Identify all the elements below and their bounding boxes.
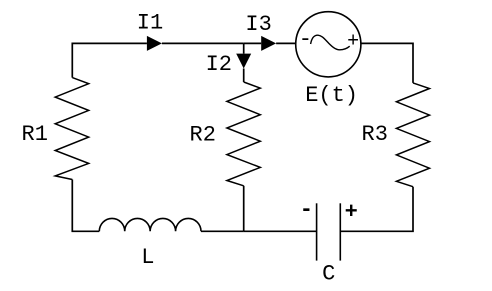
capacitor right plate [339,203,341,260]
wire: junction down to I2 arrow [243,43,245,53]
wire: I2 arrow to R2 top [243,69,245,83]
svg-text:+: + [345,200,358,225]
svg-text:L: L [141,245,154,270]
wire: junction to I3 arrow [244,42,262,44]
wire: inductor right end to R2 bottom junction [201,230,244,232]
capacitor left plate [316,203,318,260]
wire: capacitor right plate to R3 bottom [340,187,413,232]
source body circle [296,12,361,77]
svg-text:R2: R2 [190,123,216,148]
svg-text:I2: I2 [206,52,232,77]
current arrow I2 [236,54,251,69]
wire: I3 arrow to source negative terminal [276,42,296,44]
svg-text:R3: R3 [362,122,388,147]
AC voltage source E(t) [296,12,361,77]
wire: R2 bottom junction to capacitor left plate [244,230,317,232]
wire: left vertical + top rail to I1 arrow [72,43,147,77]
svg-text:E(t): E(t) [305,83,358,108]
wire: top rail I1 arrow to junction node [162,42,244,44]
source sine wave [311,35,350,50]
svg-text:R1: R1 [22,122,48,147]
wire: R2 bottom vertical [243,186,245,232]
wire: source positive terminal to R3 top [361,43,413,83]
resistor R2 [227,82,260,186]
resistor R1 [55,78,88,180]
svg-text:-: - [300,198,313,223]
wire: R1 bottom to inductor left end [72,180,99,232]
current arrow I3 [261,36,276,51]
inductor L [99,218,201,231]
svg-text:I3: I3 [245,12,271,37]
current arrow I1 [147,36,162,51]
capacitor C [317,203,341,260]
svg-text:C: C [322,262,335,287]
svg-text:I1: I1 [137,10,163,35]
svg-text:-: - [299,27,312,52]
svg-text:+: + [347,31,359,54]
resistor R3 [396,83,429,187]
